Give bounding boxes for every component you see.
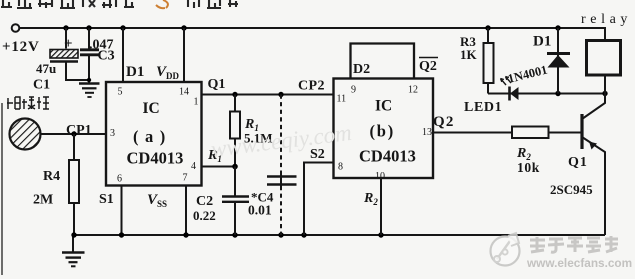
capacitor C1 47u electrolytic [33, 28, 89, 93]
wire S1 pin6 to ground bus [121, 185, 123, 235]
svg-text:CD4013: CD4013 [127, 149, 184, 168]
svg-text:(b): (b) [370, 122, 396, 141]
bus junction dots [71, 232, 76, 237]
capacitor C4 0.01 (optional, dashed) [248, 95, 297, 236]
Q2-bar label [419, 58, 438, 75]
svg-text:3: 3 [110, 128, 115, 139]
junction R4 top [71, 131, 76, 136]
svg-text:C3: C3 [98, 49, 115, 64]
svg-text:8: 8 [338, 162, 343, 173]
svg-text:S1: S1 [99, 192, 114, 207]
junction C4 top [278, 92, 283, 97]
transistor Q1 2SC945 [550, 94, 605, 236]
wire relay to collector node [604, 75, 606, 94]
op IC U1a box CD4013 [106, 82, 202, 186]
svg-text:Q2: Q2 [419, 59, 437, 74]
relay coil box [587, 41, 621, 76]
diode D1 1N4001 [506, 28, 570, 94]
svg-text:www.elecfans.com: www.elecfans.com [526, 256, 632, 270]
wire touch plate to pin3 [41, 133, 107, 135]
LED1 [464, 77, 519, 116]
resistor R1 5.1M [230, 95, 273, 167]
svg-text:Q2: Q2 [433, 114, 455, 130]
junction D1 on rail [555, 25, 560, 30]
touch plate Chinese label [7, 97, 49, 109]
svg-text:47u: 47u [36, 61, 56, 76]
svg-text:7: 7 [183, 173, 188, 184]
svg-text:CD4013: CD4013 [359, 147, 416, 166]
capacitor C3 .047 [80, 28, 115, 83]
svg-text:2SC945: 2SC945 [550, 182, 593, 197]
wire pin14 of IC(a) to rail [183, 28, 185, 81]
svg-text:Q1: Q1 [568, 155, 588, 170]
wire pin10 R2 reset to ground bus [380, 178, 382, 235]
svg-text:CP2: CP2 [298, 79, 325, 94]
svg-text:13: 13 [422, 127, 432, 138]
junction pin5 wire on rail [120, 25, 125, 30]
svg-text:11: 11 [337, 94, 347, 105]
svg-text:14: 14 [179, 87, 189, 98]
svg-text:relay: relay [581, 12, 632, 27]
svg-text:10k: 10k [517, 160, 540, 175]
wire Vss pin7 to ground bus [185, 185, 187, 235]
svg-text:D1: D1 [126, 64, 144, 80]
svg-text:LED1: LED1 [464, 100, 502, 115]
scan edge artifact at left [1, 103, 3, 275]
svg-text:D1: D1 [533, 34, 551, 50]
junction C1 on rail [63, 25, 68, 30]
svg-text:0.01: 0.01 [248, 203, 272, 218]
svg-text:D2: D2 [353, 62, 370, 77]
wire pin5 of IC(a) to rail [122, 28, 124, 81]
junction pin14 wire on rail [181, 25, 186, 30]
top +12V rail wire [19, 28, 605, 41]
+12V supply terminal [12, 24, 20, 32]
orange numeral fragment in caption [156, 0, 168, 8]
svg-text:5: 5 [118, 87, 123, 98]
svg-text:4: 4 [191, 161, 196, 172]
svg-text:(a): (a) [133, 127, 172, 146]
wire S2 pin8 to ground bus [304, 163, 334, 236]
touch plate (hatched disc) [10, 119, 41, 150]
svg-text:1: 1 [194, 97, 199, 108]
junction R1 top [232, 92, 237, 97]
svg-text:6: 6 [117, 174, 122, 185]
elecfans watermark Chinese text [530, 236, 618, 252]
resistor R3 1K [460, 28, 494, 94]
feedback loop wire Q2bar to D2 [351, 44, 415, 79]
svg-text:R4: R4 [43, 169, 60, 184]
ground below C3 [79, 84, 100, 98]
collector node wire [488, 93, 605, 95]
svg-text:2M: 2M [33, 193, 53, 208]
ground bus wire [73, 234, 605, 236]
svg-text:+12V: +12V [2, 39, 40, 55]
svg-text:IC: IC [143, 100, 160, 117]
svg-text:9: 9 [351, 85, 356, 96]
svg-text:IC: IC [375, 98, 392, 115]
svg-text:C1: C1 [33, 78, 50, 93]
op IC U1b box CD4013 [334, 79, 434, 179]
svg-text:Q1: Q1 [208, 77, 226, 92]
resistor R4 2M [33, 134, 79, 235]
resistor R2 10k [512, 127, 582, 176]
wire pin4 reset to R1/C2 node [201, 166, 235, 168]
clipped Chinese caption strip at top [1, 0, 238, 8]
wire Q2 pin13 to R2 [433, 132, 512, 134]
svg-text:C2: C2 [196, 194, 213, 209]
wire pin1 Q1 to CP2 pin11 [201, 94, 334, 96]
junction C3 on rail [86, 25, 91, 30]
svg-text:0.22: 0.22 [193, 208, 216, 223]
svg-text:+: + [64, 36, 73, 52]
svg-text:1K: 1K [460, 47, 478, 62]
junction R3 on rail [485, 25, 490, 30]
svg-text:CP1: CP1 [66, 123, 92, 138]
main ground symbol [62, 235, 85, 266]
capacitor C2 0.22 [193, 167, 249, 236]
svg-text:12: 12 [408, 85, 418, 96]
elecfans watermark logo [491, 233, 520, 266]
